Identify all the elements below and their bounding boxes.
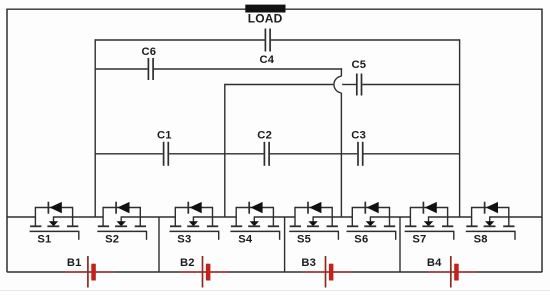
svg-text:S1: S1 bbox=[37, 233, 51, 245]
svg-text:S6: S6 bbox=[354, 233, 368, 245]
wire switch-row lead segment 9 bbox=[490, 216, 542, 218]
capacitor C6 bbox=[142, 46, 157, 80]
wire drop S2-S3 junction bbox=[158, 217, 160, 272]
battery B4 bbox=[427, 256, 477, 288]
battery B2 bbox=[180, 256, 229, 288]
svg-text:B4: B4 bbox=[427, 257, 442, 269]
battery B3 bbox=[301, 256, 351, 288]
svg-text:LOAD: LOAD bbox=[248, 12, 283, 26]
wire rail D segment 4 bbox=[364, 153, 460, 155]
battery B1 bbox=[65, 256, 114, 288]
switch S6 (MOSFET with body diode) bbox=[347, 202, 397, 246]
wire rail A left segment bbox=[95, 39, 264, 41]
wire rail A right segment bbox=[271, 39, 460, 41]
node 3 riser upper bbox=[340, 68, 342, 76]
wire switch-row lead segment 5 bbox=[254, 216, 295, 218]
switch S2 (MOSFET with body diode) bbox=[97, 202, 147, 246]
wire top rail bbox=[7, 8, 542, 10]
svg-text:S4: S4 bbox=[238, 233, 253, 245]
wire rail C mid segment bbox=[342, 84, 356, 86]
wire right border bbox=[541, 9, 543, 273]
switch S7 (MOSFET with body diode) bbox=[405, 202, 455, 246]
svg-text:B1: B1 bbox=[67, 257, 82, 269]
wire switch-row lead segment 3 bbox=[121, 216, 175, 218]
wire rail C left segment bbox=[225, 84, 333, 86]
capacitor C2 bbox=[257, 130, 272, 166]
wire crossover hop arc bbox=[334, 76, 341, 93]
wire switch-row lead segment 4 bbox=[193, 216, 236, 218]
wire rail B left segment bbox=[95, 68, 147, 70]
wire rail C right segment bbox=[362, 84, 459, 86]
wire switch-row lead segment 8 bbox=[429, 216, 472, 218]
switch S1 (MOSFET with body diode) bbox=[30, 202, 80, 246]
node 4 riser bbox=[459, 39, 461, 217]
wire drop S4-S5 junction bbox=[284, 217, 286, 272]
capacitor C5 bbox=[352, 59, 367, 96]
load LOAD bbox=[245, 5, 285, 26]
svg-text:C2: C2 bbox=[257, 130, 272, 142]
svg-text:S8: S8 bbox=[474, 233, 488, 245]
decor bbox=[0, 290, 550, 292]
wire rail D segment 2 bbox=[169, 153, 264, 155]
switch S3 (MOSFET with body diode) bbox=[170, 202, 220, 246]
switch S8 (MOSFET with body diode) bbox=[466, 202, 516, 246]
svg-text:S7: S7 bbox=[412, 233, 426, 245]
svg-text:C1: C1 bbox=[157, 130, 172, 142]
wire switch-row lead segment 1 bbox=[7, 216, 35, 218]
node 1 riser bbox=[94, 39, 96, 217]
svg-text:C5: C5 bbox=[352, 59, 367, 71]
svg-text:B2: B2 bbox=[180, 257, 195, 269]
capacitor C1 bbox=[157, 130, 172, 166]
node 2 riser bbox=[224, 84, 226, 217]
wire rail D segment 3 bbox=[270, 153, 357, 155]
wire switch-row lead segment 7 bbox=[370, 216, 410, 218]
capacitor C3 bbox=[351, 130, 366, 166]
capacitor C4 bbox=[260, 29, 275, 67]
wire rail D segment 1 bbox=[95, 153, 163, 155]
svg-text:B3: B3 bbox=[301, 257, 316, 269]
wire switch-row lead segment 6 bbox=[313, 216, 352, 218]
svg-text:S3: S3 bbox=[177, 233, 191, 245]
svg-text:C3: C3 bbox=[351, 130, 366, 142]
wire rail B right segment bbox=[154, 68, 342, 70]
node 3 riser lower bbox=[340, 93, 342, 217]
svg-text:S5: S5 bbox=[297, 233, 311, 245]
wire left border bbox=[6, 9, 8, 273]
svg-text:S2: S2 bbox=[105, 233, 119, 245]
svg-text:C4: C4 bbox=[260, 54, 275, 66]
svg-text:C6: C6 bbox=[142, 46, 157, 58]
wire drop S6-S7 junction bbox=[399, 217, 401, 272]
wire switch-row lead segment 2 bbox=[54, 216, 104, 218]
wire battery rail bbox=[7, 271, 542, 273]
switch S4 (MOSFET with body diode) bbox=[230, 202, 280, 246]
switch S5 (MOSFET with body diode) bbox=[289, 202, 339, 246]
